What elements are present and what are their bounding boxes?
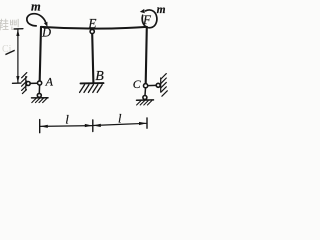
- svg-text:l: l: [118, 111, 122, 125]
- link bar A-wall: [30, 82, 37, 84]
- svg-text:m: m: [31, 0, 41, 14]
- link bar C-wall: [148, 84, 156, 86]
- ground line at C: [137, 99, 154, 101]
- beam D-E-F: [41, 27, 147, 29]
- svg-text:F: F: [142, 12, 152, 27]
- bottom dimension line B-C: [93, 123, 147, 125]
- link C-ground: [144, 88, 147, 96]
- right arrow of dimension A-B: [85, 124, 93, 127]
- down arrow of left dimension: [16, 76, 19, 83]
- wall line at C: [160, 78, 162, 92]
- bottom dimension tick at B: [92, 120, 94, 132]
- ground hatch at C: [137, 101, 152, 105]
- ground hatch at B: [80, 85, 103, 93]
- svg-text:鞋: 鞋: [0, 17, 9, 32]
- hinge E: [90, 29, 94, 33]
- left dimension line: [17, 30, 19, 82]
- column E-B: [92, 34, 93, 83]
- ground circle at A: [37, 93, 41, 97]
- column F-C: [146, 27, 147, 83]
- wall circle at C: [156, 83, 160, 87]
- left arrow of dimension A-B: [40, 125, 48, 128]
- bottom dimension tick at A: [39, 120, 41, 133]
- pin A: [38, 81, 42, 85]
- left dimension top bar: [14, 28, 23, 30]
- wall hatch at A: [22, 73, 27, 94]
- wall line at A: [25, 77, 27, 91]
- svg-text:A: A: [45, 75, 54, 89]
- right arrow of dimension B-C: [139, 122, 147, 125]
- link A-ground: [38, 85, 40, 93]
- svg-text:E: E: [87, 16, 97, 31]
- svg-text:D: D: [41, 26, 51, 40]
- up arrow of left dimension: [16, 29, 19, 36]
- ground circle at C: [143, 96, 147, 100]
- left arrow of dimension B-C: [93, 124, 101, 127]
- bottom dimension tick at C: [146, 118, 148, 128]
- moment arc at F: [142, 10, 157, 28]
- ground line at A: [32, 97, 49, 99]
- moment arc at D: [27, 14, 46, 26]
- svg-text:C: C: [133, 77, 141, 91]
- arrowhead of moment at F: [140, 9, 145, 13]
- left dimension bottom bar: [13, 82, 21, 84]
- svg-text:m: m: [157, 4, 166, 16]
- column D-A: [40, 27, 41, 81]
- watermark faint text: [0, 17, 20, 55]
- wall hatch at C: [161, 74, 167, 97]
- arrowhead of moment at D: [44, 22, 48, 27]
- wall circle at A: [26, 82, 30, 86]
- label l rotated on left dimension: [5, 50, 15, 56]
- ground hatch at A: [32, 98, 47, 102]
- bottom dimension line A-B: [40, 125, 93, 128]
- ground line at B: [81, 82, 104, 84]
- svg-text:B: B: [95, 69, 104, 84]
- svg-text:l: l: [65, 112, 69, 127]
- pin C: [144, 84, 148, 88]
